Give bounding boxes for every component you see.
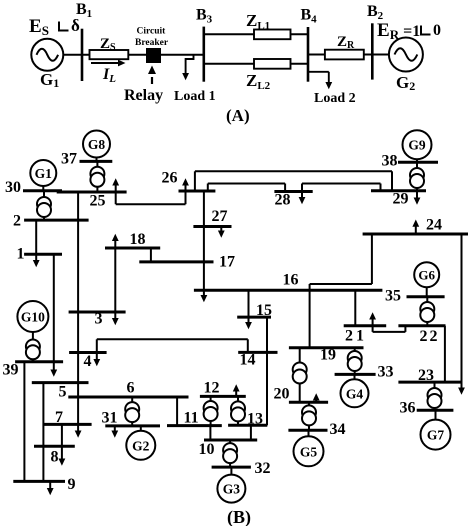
svg-text:24: 24 [426,217,442,234]
wire 25-26 jog with up arrows at bus 25 and bus 26 [112,178,189,204]
wire 25-2-3-4-5-6-7 with load arrow below bus 7 [75,192,82,438]
transformer 19-20 [293,363,307,384]
svg-text:14: 14 [240,352,256,369]
relay arrow [148,66,156,85]
bus 3 [69,311,126,314]
transformer 20-34 [302,405,316,425]
load arrow bus 29 [414,191,421,205]
bus 12 [200,395,246,398]
label ES angle delta [29,16,80,38]
bus 22 [398,324,445,327]
load 2 arrow [308,72,332,89]
bus 29 [371,189,426,192]
generator G10 [17,301,48,332]
wire G1-30 [42,186,44,191]
wire 37-25 [96,161,98,192]
svg-text:G2: G2 [132,438,150,453]
bus 31 [105,424,160,427]
svg-text:13: 13 [247,411,263,428]
transformer 12-13 [231,401,245,421]
wire 16-19 [309,290,311,348]
svg-text:G4: G4 [346,386,364,401]
wire 22-23 [444,326,446,382]
svg-text:6: 6 [127,380,135,397]
wire 13-10 [250,425,252,440]
svg-text:Circuit: Circuit [137,27,167,37]
wire G5-34 [308,430,310,436]
load arrow bus 12 up [233,384,240,396]
wire 16-24 jog [310,234,372,290]
load arrow bus 31 [111,426,118,438]
wire 10-32 [229,440,231,467]
wire 21-22 jog with up arrow at bus 21 [369,312,405,332]
svg-text:1: 1 [17,246,25,263]
svg-text:ES: ES [29,16,49,38]
bus 26 [179,190,216,193]
wire 18-3 with up arrow at bus 18 and load arrow below bus 3 [112,234,119,325]
load arrow bus 24 up [412,220,419,235]
wire G2-31 [140,426,142,431]
bus 21 [344,324,387,327]
wire 12-13 [237,396,239,425]
bus B3 [203,27,206,82]
svg-text:B4: B4 [301,7,318,26]
svg-text:IL: IL [102,66,116,85]
transformer G10-39 [26,340,40,360]
svg-text:19: 19 [320,347,336,364]
svg-text:32: 32 [255,460,271,477]
svg-text:G2: G2 [396,73,415,93]
impedance ZL2 [254,59,291,69]
wire 26-29 top line [195,171,392,191]
bus 24 [363,233,468,236]
svg-text:25: 25 [90,193,106,210]
wire G1 to breaker [63,54,146,56]
transformer 37-25 [90,167,104,187]
wire 18-17 [150,248,152,262]
wire 15-14-13 [266,317,268,425]
bus 7 [43,423,92,426]
bus 18 [105,247,160,250]
svg-text:5: 5 [59,384,67,401]
svg-text:28: 28 [275,192,291,209]
svg-text:Relay: Relay [124,87,163,104]
bus 20 [289,401,328,404]
svg-text:16: 16 [283,272,299,289]
wire 6-31 [131,397,133,426]
wire 19-33 [354,348,356,375]
wire G8-37 [96,157,98,161]
transformer 23-36 [428,388,442,408]
svg-text:4: 4 [84,353,92,370]
svg-text:(A): (A) [226,106,250,125]
bus 17 [139,260,213,263]
svg-text:ZS: ZS [100,36,116,53]
wire 2-1 with load arrow below bus 1 [33,220,40,267]
bus 28 [274,190,312,193]
bus 19 [289,346,364,349]
svg-text:29: 29 [393,191,409,208]
svg-text:30: 30 [5,179,21,196]
load 1 arrow [182,55,193,80]
bus 10 [204,439,257,442]
svg-text:B1: B1 [76,1,92,20]
wire G10-39 [32,331,34,362]
wire G4-33 [354,374,356,379]
transformer 38-29 [410,168,424,188]
generator G6 [414,262,439,287]
svg-text:Load 2: Load 2 [314,91,356,106]
svg-text:33: 33 [378,364,394,381]
bus 1 [24,253,62,256]
svg-text:G9: G9 [408,138,426,153]
bus 4 [69,351,107,354]
transformer 12-11 [204,401,218,421]
wire 26-27-17-16 with load arrow below bus 16 [201,191,208,302]
wire 5-8-9 [42,383,44,482]
current arrow IL [91,60,126,67]
svg-text:G7: G7 [427,428,445,443]
bus 14 [238,351,277,354]
load arrow bus 27 [218,227,225,238]
wire 19-20 [299,348,301,403]
svg-text:8: 8 [51,449,59,466]
svg-text:Load 1: Load 1 [174,89,216,104]
svg-text:38: 38 [382,153,398,170]
svg-text:B3: B3 [196,7,213,26]
wire 20-34 [308,402,310,430]
generator G9 [403,130,432,159]
circuit breaker CB [146,48,161,63]
wire 16-21 [354,290,356,326]
wire upper branch B3-B4 [204,33,308,35]
wire G6-35 [426,287,428,297]
bus 11 [167,424,222,427]
svg-text:10: 10 [199,441,215,458]
svg-text:37: 37 [61,151,77,168]
wire 6-11 [176,397,178,426]
bus 34 [288,429,327,432]
bus 25 [57,191,127,194]
svg-text:27: 27 [212,208,228,225]
transformer 30-2 [37,197,51,217]
svg-text:G6: G6 [418,268,435,283]
wire 26-28 [208,184,285,192]
bus B1 [81,29,84,81]
load arrow bus 9 [47,481,54,495]
transformer 10-32 [223,443,237,463]
svg-text:Breaker: Breaker [135,38,169,48]
bus 16 [194,289,383,292]
wire B4 to G2 [308,54,389,56]
wire 23-36 [434,382,436,410]
generator G1 [31,39,63,71]
svg-text:35: 35 [385,288,401,305]
wire 35-22 [426,297,428,326]
bus 8 [34,445,75,448]
svg-text:2: 2 [13,213,21,230]
svg-text:23: 23 [418,367,434,384]
svg-text:G10: G10 [21,310,45,325]
svg-text:3: 3 [95,311,103,328]
impedance ZS [90,50,129,59]
svg-text:12: 12 [204,380,220,397]
bus B4 [307,27,310,82]
svg-text:0: 0 [433,22,441,39]
bus 23 [398,381,460,384]
wire G9-38 [416,159,418,162]
svg-text:7: 7 [55,409,63,426]
bus 36 [417,409,454,412]
svg-text:17: 17 [219,254,235,271]
svg-text:20: 20 [274,386,290,403]
bus 37 [80,160,113,163]
wire 11-10 [209,426,211,440]
svg-text:39: 39 [3,362,19,379]
impedance ZL1 [254,30,291,40]
wire 4-14 jog with load arrow below bus 4 [93,339,247,366]
transformer 35-22 [420,302,434,322]
bus 5 [32,381,89,384]
wire 39-9 [23,362,25,482]
wire 24-23 with load arrow below bus 23 [458,234,465,395]
impedance ZR [325,50,364,60]
transformer 19-33 [348,351,362,371]
bus B2 [371,23,374,79]
generator G3 [217,475,245,503]
svg-text:31: 31 [102,410,118,427]
bus 2 [24,219,89,222]
svg-text:(B): (B) [227,507,251,526]
wire lower branch B3-B4 [204,63,308,65]
generator G1 [30,160,56,186]
wire 7-8 with load arrow below bus 8 [59,424,66,465]
svg-text:9: 9 [68,476,76,493]
load arrow bus 20 up [313,393,320,402]
svg-text:G3: G3 [223,482,241,497]
wire G3-32 [230,467,232,475]
svg-text:ZL2: ZL2 [246,71,271,92]
svg-text:G8: G8 [88,137,106,152]
bus 27 [193,225,231,228]
generator G8 [83,131,110,158]
generator G7 [421,420,451,450]
svg-text:15: 15 [256,302,272,319]
generator G2 [389,38,423,72]
bus 15 [237,316,271,319]
generator G5 [294,436,324,466]
bus 32 [212,466,251,469]
wire 30-2 [43,191,45,220]
svg-text:ZL1: ZL1 [246,11,270,32]
svg-text:18: 18 [130,231,146,248]
wire 12-11 [210,396,212,425]
svg-text:G5: G5 [300,444,318,459]
svg-text:36: 36 [400,400,416,417]
label ER = 1 angle 0 [377,20,441,42]
wire 1-39 with load arrow below bus 39 [50,254,57,376]
wire 38-29 [416,162,418,191]
generator G4 [341,379,369,407]
generator G2 [126,431,155,460]
svg-text:26: 26 [162,170,178,187]
bus 9 [13,480,65,483]
svg-text:34: 34 [330,421,346,438]
bus 33 [335,373,376,376]
bus 38 [398,161,438,164]
svg-text:G1: G1 [40,70,59,90]
svg-text:21: 21 [345,328,367,345]
bus 35 [407,295,445,298]
wire 28-29 with load arrow below bus 28 [299,184,381,205]
svg-text:11: 11 [184,410,199,427]
wire breaker to B3 [161,54,204,56]
bus 39 [15,360,63,363]
transformer 6-31 [125,402,139,422]
bus 30 [23,189,62,192]
svg-text:22: 22 [420,328,440,345]
label Circuit Breaker [135,27,169,48]
svg-text:G1: G1 [35,166,53,181]
bus 13 [228,424,267,427]
bus 6 [68,396,188,399]
svg-text:ZR: ZR [337,34,355,51]
wire G7-36 [435,410,437,420]
wire 16-15 with load arrow below bus 15 [245,290,252,329]
svg-text:δ: δ [71,16,80,35]
